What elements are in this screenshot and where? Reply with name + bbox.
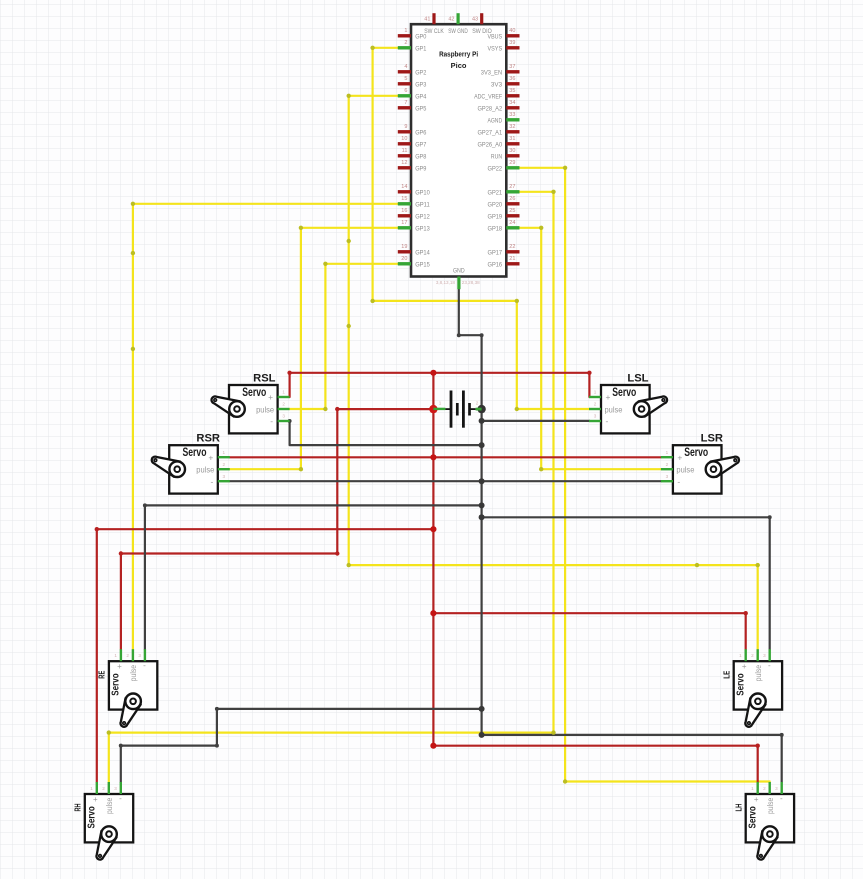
pico pin 34 GP28_A2 (478, 100, 520, 113)
svg-text:34: 34 (509, 100, 515, 106)
junction black trunk 708.9 (479, 706, 485, 712)
bend black 216.9,708.9 (215, 707, 219, 711)
svg-text:VBUS: VBUS (488, 34, 503, 41)
svg-text:GP2: GP2 (415, 70, 426, 77)
svg-text:-: - (210, 476, 213, 486)
pico pin 5 GP3 (398, 76, 427, 89)
bend yellow 516.8,409 (515, 407, 519, 411)
bend yellow 516.8,300.9 (515, 299, 519, 303)
svg-text:2: 2 (282, 402, 285, 407)
wire battery+ trunk down (432, 409, 434, 746)
svg-text:15: 15 (401, 196, 407, 202)
svg-text:GND: GND (453, 268, 465, 275)
svg-text:-: - (768, 661, 771, 670)
svg-text:17: 17 (401, 220, 407, 226)
wire battery+ to RE+ (121, 409, 434, 649)
svg-text:21: 21 (509, 256, 515, 262)
svg-text:2: 2 (404, 40, 407, 46)
svg-text:Pico: Pico (451, 63, 467, 70)
wire trunk to LE- (482, 517, 770, 649)
svg-text:pulse: pulse (129, 664, 138, 681)
svg-text:3: 3 (594, 414, 597, 419)
servo RSR (152, 445, 230, 493)
bend red 757.7,745.7 (756, 744, 760, 748)
svg-text:9: 9 (404, 124, 407, 130)
svg-text:+: + (754, 795, 759, 804)
servo RE (109, 649, 157, 727)
bend yellow 565.1,167.8 (563, 166, 567, 170)
svg-text:GP21: GP21 (488, 190, 503, 197)
svg-text:32: 32 (509, 124, 515, 130)
bend yellow 697.0,565.1 (695, 563, 699, 567)
svg-text:pulse: pulse (754, 664, 763, 681)
svg-text:7: 7 (404, 100, 407, 106)
svg-text:2: 2 (751, 653, 754, 658)
svg-text:Raspberry Pi: Raspberry Pi (439, 52, 478, 59)
servo LSL (589, 385, 667, 433)
svg-text:26: 26 (509, 196, 515, 202)
svg-text:GP14: GP14 (415, 250, 430, 257)
bend yellow 372.6,47.8 (370, 46, 374, 50)
svg-text:2: 2 (594, 402, 597, 407)
pico pin 40 VBUS (488, 28, 520, 41)
svg-text:+: + (117, 662, 122, 671)
svg-text:Servo: Servo (111, 673, 122, 695)
svg-text:42: 42 (448, 17, 454, 23)
svg-text:2: 2 (102, 786, 105, 791)
pico pin 19 GP14 (398, 244, 430, 257)
pico bottom pin GND (436, 277, 480, 290)
junction red trunk 745.7 (430, 743, 436, 749)
pico pin 37 3V3_EN (481, 64, 520, 77)
pico pin 7 GP5 (398, 100, 427, 113)
bend yellow 325.4,263.8 (323, 262, 327, 266)
bend yellow 553.5,732.6 (551, 730, 555, 734)
bend yellow 348.7,241.0 (347, 239, 351, 243)
wire GP22 to LH pulse (520, 168, 770, 782)
bend yellow 372.6,300.9 (370, 299, 374, 303)
svg-text:-: - (270, 416, 273, 426)
svg-text:43: 43 (472, 17, 478, 23)
wire trunk to RH- (121, 709, 482, 782)
Raspberry Pi Pico U1 (411, 24, 506, 276)
svg-text:3: 3 (775, 786, 778, 791)
pico pin 11 GP8 (398, 148, 427, 161)
svg-text:25: 25 (509, 208, 515, 214)
bend yellow 541.2,469.2 (539, 467, 543, 471)
svg-text:GP11: GP11 (415, 202, 430, 209)
pico pin 12 GP9 (398, 160, 427, 173)
svg-text:Servo: Servo (684, 445, 708, 459)
svg-text:GP19: GP19 (488, 214, 503, 221)
bend black 481.6,335.2 (480, 333, 484, 337)
svg-text:19: 19 (401, 244, 407, 250)
pico top pin 42 (448, 13, 459, 24)
junction black trunk 517.3 (479, 514, 485, 520)
wire RSR- to LSR- (230, 480, 661, 482)
servo LH (746, 782, 794, 860)
junction red trunk 372.8 (430, 370, 436, 376)
svg-text:GP0: GP0 (415, 34, 426, 41)
svg-text:GP18: GP18 (488, 226, 503, 233)
svg-text:3,8,13,18: 3,8,13,18 (436, 280, 456, 285)
wire battery+ to rail (432, 373, 434, 409)
svg-text:-: - (143, 661, 146, 670)
svg-text:6: 6 (404, 88, 407, 94)
svg-text:1: 1 (439, 401, 442, 406)
pico pin 24 GP18 (488, 220, 520, 233)
svg-text:GP5: GP5 (415, 106, 426, 113)
bend black 144.9,505.4 (143, 503, 147, 507)
svg-text:ADC_VREF: ADC_VREF (474, 94, 502, 101)
bend yellow 300.9,227.8 (299, 226, 303, 230)
bend yellow 565.1,781.5 (563, 779, 567, 783)
bend yellow 300.9,469.2 (299, 467, 303, 471)
wire RSR+ to LSR+ (230, 456, 661, 458)
battery BT1 (433, 391, 481, 428)
svg-text:GP22: GP22 (488, 166, 503, 173)
svg-text:39: 39 (509, 40, 515, 46)
svg-text:35: 35 (509, 88, 515, 94)
pico pin 21 GP16 (488, 256, 520, 269)
svg-text:GP9: GP9 (415, 166, 426, 173)
pico pin 36 3V3 (491, 76, 520, 89)
bend red 745.7,613.2 (744, 611, 748, 615)
svg-text:GP1: GP1 (415, 46, 426, 53)
svg-text:Servo: Servo (747, 806, 758, 828)
svg-text:2: 2 (126, 653, 129, 658)
servo RH (85, 782, 133, 860)
svg-text:16: 16 (401, 208, 407, 214)
pico pin 20 GP15 (398, 256, 430, 269)
svg-text:GP3: GP3 (415, 82, 426, 89)
svg-text:GP16: GP16 (488, 262, 503, 269)
svg-text:GP13: GP13 (415, 226, 430, 233)
pico pin 16 GP12 (398, 208, 430, 221)
svg-text:GP28_A2: GP28_A2 (478, 106, 503, 113)
pico pin 9 GP6 (398, 124, 427, 137)
junction black trunk 505.4 (479, 502, 485, 508)
pico pin 10 GP7 (398, 136, 427, 149)
svg-text:-: - (780, 794, 783, 803)
svg-text:10: 10 (401, 136, 407, 142)
svg-text:GP8: GP8 (415, 154, 426, 161)
pico pin 30 RUN (491, 148, 520, 161)
svg-text:37: 37 (509, 64, 515, 70)
wire GP18 to LSR pulse (520, 228, 661, 469)
svg-text:31: 31 (509, 136, 515, 142)
svg-text:GP12: GP12 (415, 214, 430, 221)
svg-text:GP7: GP7 (415, 142, 426, 149)
svg-text:pulse: pulse (676, 465, 694, 475)
svg-text:GP4: GP4 (415, 94, 426, 101)
pico pin 31 GP26_A0 (478, 136, 520, 149)
svg-text:GP6: GP6 (415, 130, 426, 137)
svg-text:3: 3 (223, 474, 226, 479)
svg-text:11: 11 (402, 148, 408, 154)
bend yellow 553.5,191.8 (551, 190, 555, 194)
wire GP21 to RH pulse (109, 192, 554, 782)
svg-text:1: 1 (594, 390, 597, 395)
svg-text:1: 1 (114, 653, 117, 658)
svg-text:RUN: RUN (491, 154, 502, 161)
pico pin 15 GP11 (398, 196, 430, 209)
svg-text:LSL: LSL (627, 373, 648, 385)
svg-text:SW GND: SW GND (448, 28, 468, 35)
svg-text:+: + (93, 795, 98, 804)
svg-text:+: + (742, 662, 747, 671)
pico pin 33 AGND (488, 112, 520, 125)
bend yellow 348.7,326.0 (347, 324, 351, 328)
pico pin 29 GP22 (488, 160, 520, 173)
svg-text:3: 3 (666, 474, 669, 479)
bend red 120.9,553.5 (119, 551, 123, 555)
junction black trunk 734.9 (479, 732, 485, 738)
svg-text:33: 33 (509, 112, 515, 118)
svg-text:12: 12 (401, 160, 407, 166)
bend black 216.9,745.6 (215, 744, 219, 748)
svg-text:2: 2 (763, 786, 766, 791)
svg-text:22: 22 (509, 244, 515, 250)
svg-text:GP27_A1: GP27_A1 (478, 130, 503, 137)
servo LE (734, 649, 782, 727)
bend black 781.7,734.9 (780, 733, 784, 737)
svg-text:pulse: pulse (256, 404, 274, 414)
pico pin 32 GP27_A1 (478, 124, 520, 137)
svg-text:GP15: GP15 (415, 262, 430, 269)
wire GP13 to RSR pulse (230, 228, 398, 469)
svg-text:Servo: Servo (242, 385, 266, 399)
bend black 458.8,335.2 (457, 333, 461, 337)
svg-text:GP17: GP17 (488, 250, 503, 257)
junction red trunk 457.3 (430, 454, 436, 460)
svg-text:2: 2 (223, 462, 226, 467)
svg-text:27: 27 (509, 184, 515, 190)
junction black trunk 445.1 (479, 442, 485, 448)
bend black 120.8,745.6 (119, 744, 123, 748)
pico pin 39 VSYS (488, 40, 520, 53)
bend yellow 348.7,565.1 (347, 563, 351, 567)
svg-text:1: 1 (282, 390, 285, 395)
bend black 289.6,421 (288, 419, 292, 423)
wire trunk to RH+ (97, 529, 434, 782)
svg-text:3: 3 (114, 786, 117, 791)
svg-text:3V3: 3V3 (491, 82, 502, 89)
svg-text:14: 14 (401, 184, 407, 190)
pico top pin 41 (424, 13, 435, 24)
bend yellow 541.2,227.8 (539, 226, 543, 230)
svg-text:+: + (268, 392, 273, 402)
pico pin 26 GP20 (488, 196, 520, 209)
svg-text:RSR: RSR (196, 433, 220, 445)
wire GP4 to LE pulse (349, 96, 758, 649)
svg-text:-: - (119, 794, 122, 803)
svg-text:24: 24 (509, 220, 515, 226)
wire GP11 to RE pulse (133, 204, 398, 649)
bend red 337.3,553.5 (335, 551, 339, 555)
svg-text:41: 41 (424, 17, 430, 23)
pico pin 6 GP4 (398, 88, 427, 101)
svg-text:AGND: AGND (488, 118, 503, 125)
svg-text:SW CLK: SW CLK (424, 28, 444, 35)
junction battery + node (429, 405, 437, 413)
svg-text:GP20: GP20 (488, 202, 503, 209)
bend yellow 757.7,565.1 (756, 563, 760, 567)
bend black 769.7,517.3 (768, 515, 772, 519)
svg-text:+: + (208, 452, 213, 462)
svg-text:1: 1 (751, 786, 754, 791)
pico pin 17 GP13 (398, 220, 430, 233)
wire trunk to LE+ (433, 613, 745, 649)
svg-text:3: 3 (282, 414, 285, 419)
svg-text:LH: LH (733, 804, 743, 812)
wire GP1 to LSL pulse (373, 48, 590, 409)
junction black trunk 481.2 (479, 478, 485, 484)
svg-text:RSL: RSL (253, 373, 276, 385)
bend red 289.6,372.8 (287, 371, 291, 375)
bend red 337.3,409.1 (335, 407, 339, 411)
svg-text:pulse: pulse (605, 404, 623, 414)
svg-text:pulse: pulse (766, 797, 775, 814)
wire battery- trunk down (481, 409, 483, 735)
svg-text:-: - (677, 476, 680, 486)
wire trunk to LSL- (482, 420, 590, 422)
svg-text:RH: RH (73, 804, 83, 812)
pico pin 27 GP21 (488, 184, 520, 197)
svg-text:40: 40 (509, 28, 515, 34)
servo LSR (661, 445, 739, 493)
svg-text:LE: LE (721, 670, 731, 678)
pico pin 2 GP1 (398, 40, 427, 53)
svg-text:3: 3 (138, 653, 141, 658)
junction black trunk 420.9 (479, 418, 485, 424)
svg-text:Servo: Servo (735, 673, 746, 695)
svg-text:1: 1 (404, 28, 407, 34)
pico pin 35 ADC_VREF (474, 88, 519, 101)
svg-text:3: 3 (763, 653, 766, 658)
svg-text:4: 4 (404, 64, 407, 70)
bend red 96.8,529.2 (95, 527, 99, 531)
svg-text:1: 1 (90, 786, 93, 791)
svg-text:Servo: Servo (87, 806, 98, 828)
svg-text:LSR: LSR (701, 433, 723, 445)
svg-text:36: 36 (509, 76, 515, 82)
wire trunk to LH+ (433, 746, 757, 782)
svg-text:Servo: Servo (183, 445, 207, 459)
pico pin 1 GP0 (398, 28, 427, 41)
svg-text:GP26_A0: GP26_A0 (478, 142, 503, 149)
bend yellow 132.9,348.9 (131, 347, 135, 351)
wire RSL+ to LSL+ power rail (290, 373, 590, 397)
svg-text:pulse: pulse (196, 465, 214, 475)
svg-text:RE: RE (97, 670, 107, 678)
svg-text:1: 1 (739, 653, 742, 658)
svg-text:5: 5 (404, 76, 407, 82)
pico pin 14 GP10 (398, 184, 430, 197)
svg-text:23,28,38: 23,28,38 (462, 280, 480, 285)
bend yellow 132.9,253.1 (131, 251, 135, 255)
svg-text:29: 29 (509, 160, 515, 166)
servo RSL (211, 385, 289, 433)
bend yellow 132.9,203.8 (131, 202, 135, 206)
pico pin 25 GP19 (488, 208, 520, 221)
svg-text:20: 20 (401, 256, 407, 262)
wire RE- to trunk (145, 505, 482, 649)
wire GP15 to RSL pulse (290, 264, 398, 409)
junction red trunk 529.2 (430, 526, 436, 532)
svg-text:pulse: pulse (105, 797, 114, 814)
svg-text:-: - (606, 416, 609, 426)
bend red 589.4,372.8 (587, 371, 591, 375)
wire RSL- to trunk (290, 421, 482, 445)
junction battery - node (477, 405, 485, 413)
bend yellow 325.4,409 (323, 407, 327, 411)
svg-text:GP10: GP10 (415, 190, 430, 197)
svg-text:2: 2 (666, 462, 669, 467)
bend yellow 108.8,732.6 (107, 730, 111, 734)
svg-text:+: + (606, 392, 611, 402)
svg-text:+: + (677, 452, 682, 462)
svg-text:1: 1 (223, 450, 226, 455)
bend yellow 348.7,95.8 (347, 94, 351, 98)
svg-text:2: 2 (476, 401, 479, 406)
junction red trunk 613.2 (430, 610, 436, 616)
pico top pin 43 (472, 13, 483, 24)
pico pin 22 GP17 (488, 244, 520, 257)
wire pico GND to battery- (459, 289, 482, 409)
svg-text:Servo: Servo (612, 385, 636, 399)
pico pin 4 GP2 (398, 64, 427, 77)
svg-text:3V3_EN: 3V3_EN (481, 70, 502, 77)
svg-text:30: 30 (509, 148, 515, 154)
svg-text:VSYS: VSYS (488, 46, 503, 53)
svg-text:1: 1 (666, 450, 669, 455)
wire trunk to LH- (482, 735, 782, 782)
